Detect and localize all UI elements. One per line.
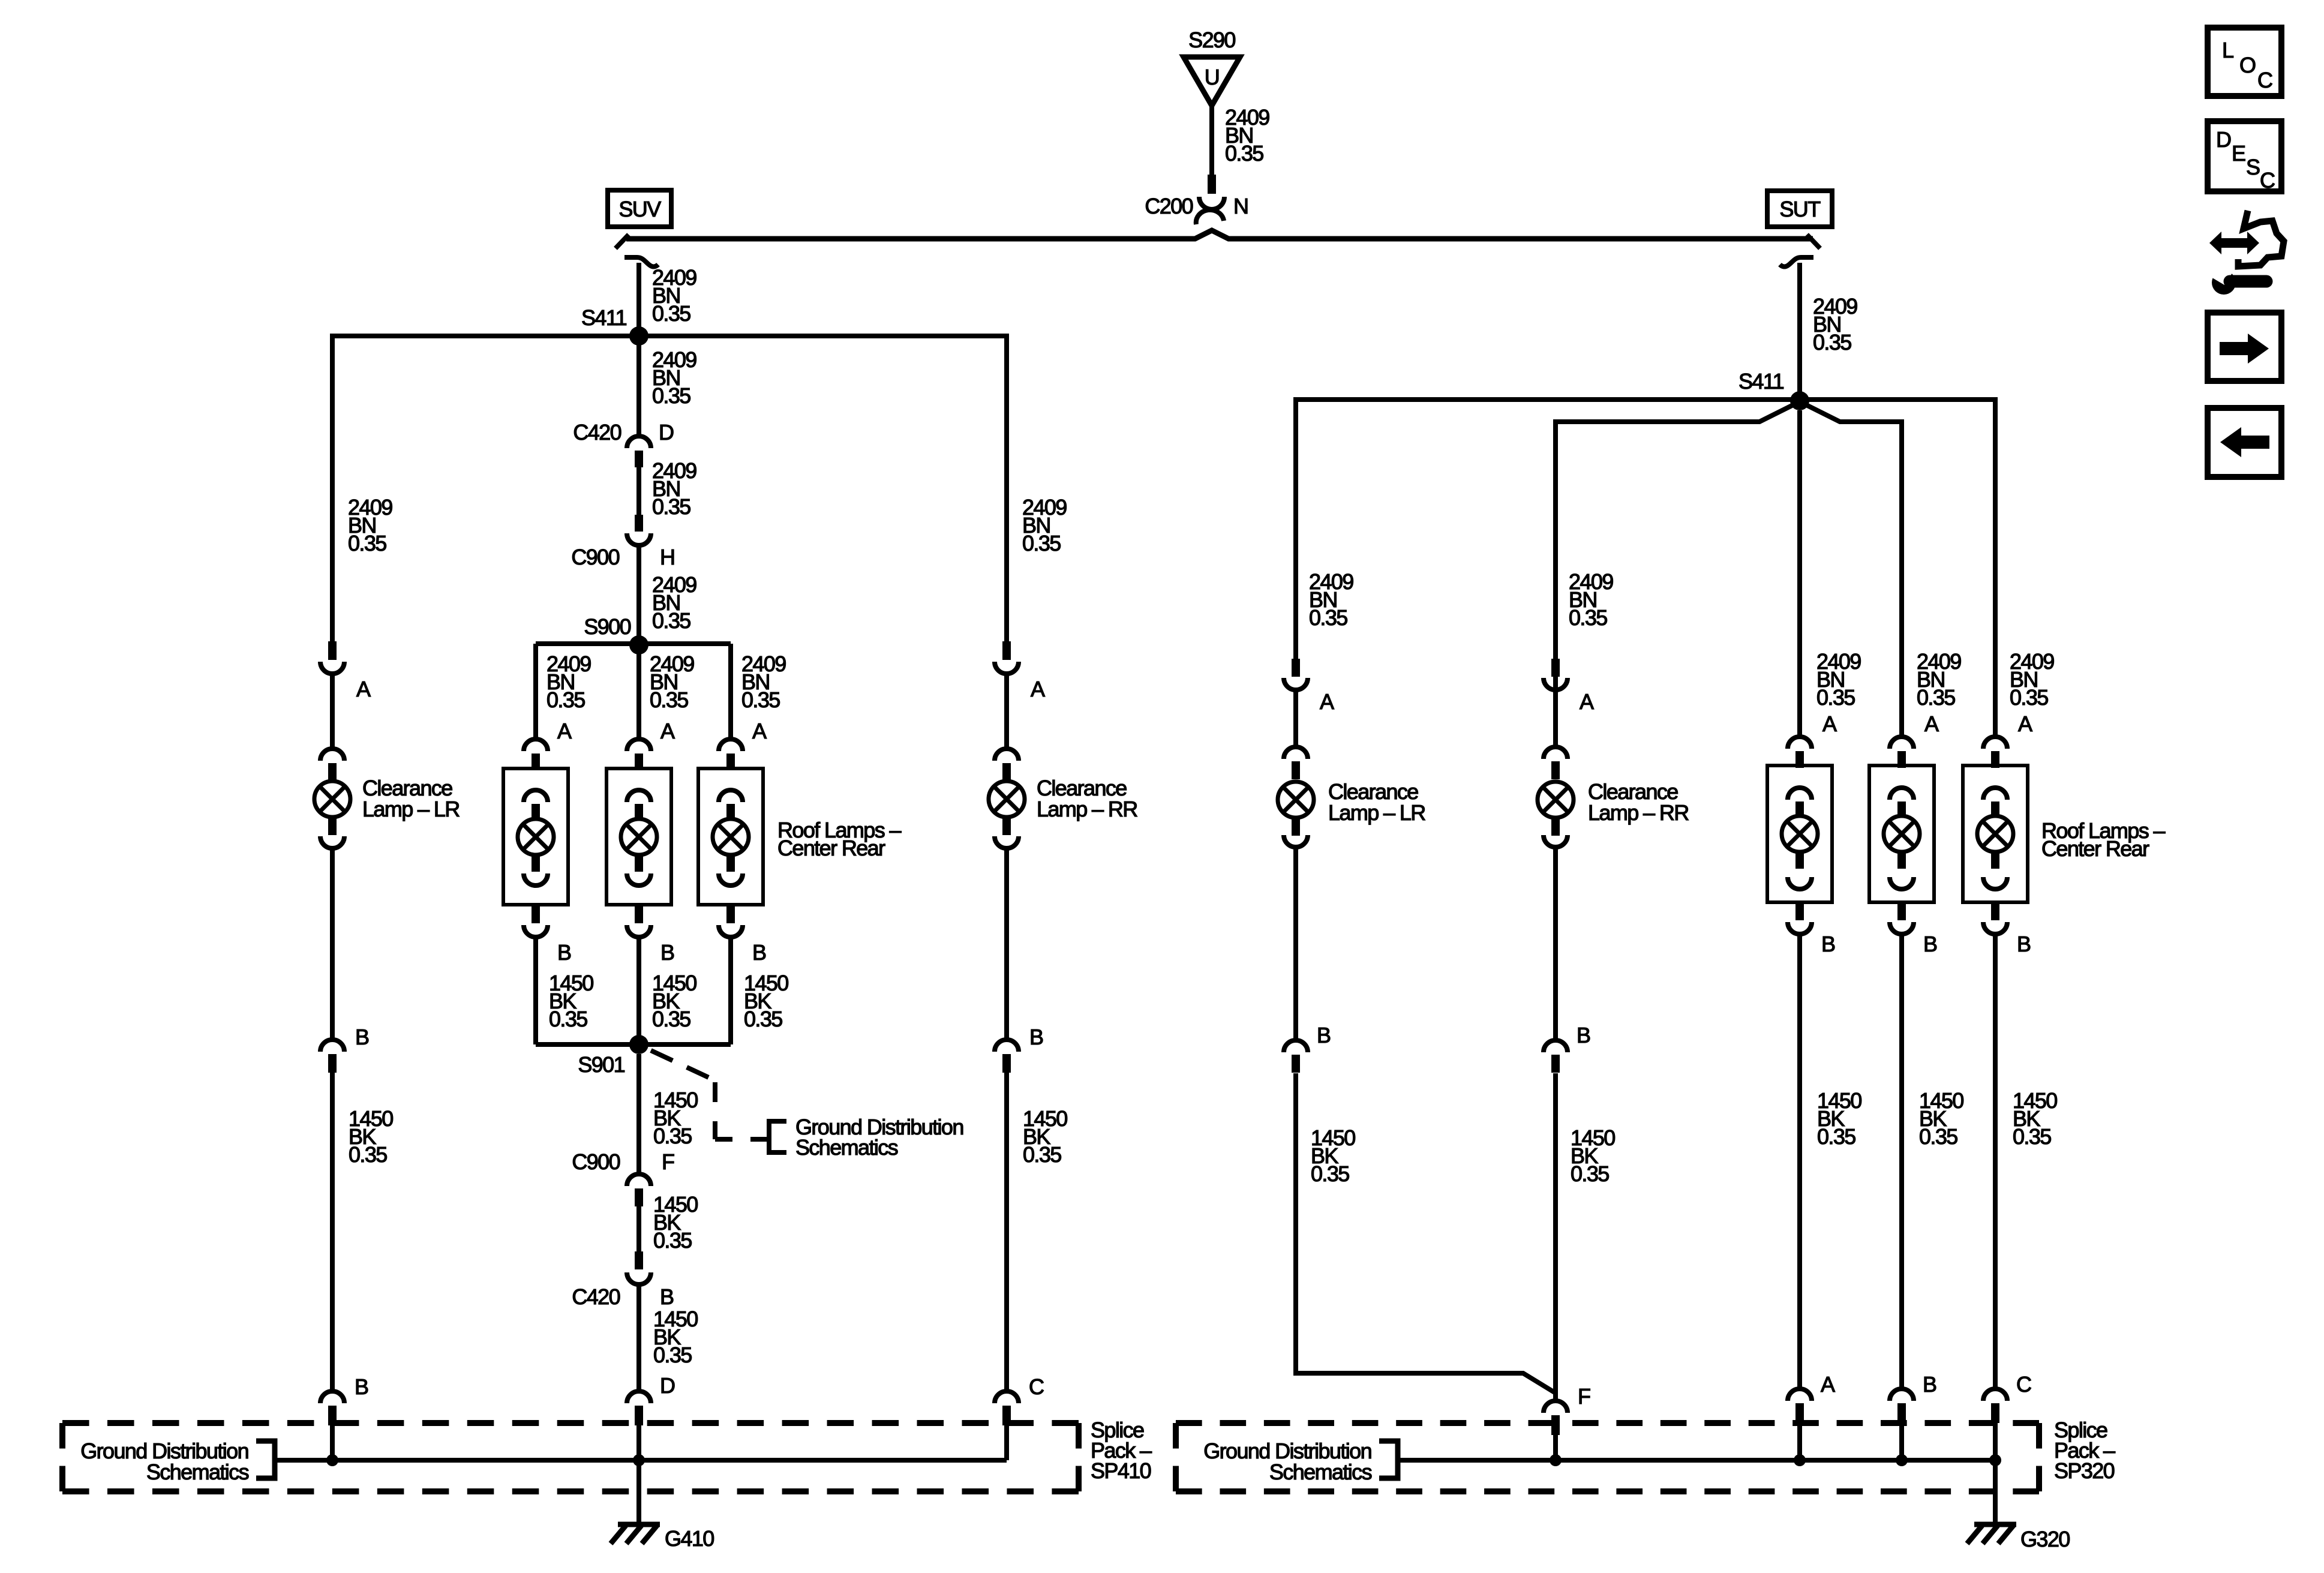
svg-text:A: A xyxy=(1320,689,1334,714)
roof lamp 2 housing (SUT) xyxy=(1869,766,1934,902)
ground G320 xyxy=(1967,1524,2070,1551)
svg-text:Lamp – RR: Lamp – RR xyxy=(1037,797,1137,821)
wire label 1450 BK 0.35 (roof lamp 3 SUV) xyxy=(744,971,788,1031)
svg-text:SUT: SUT xyxy=(1779,197,1821,221)
svg-text:S290: S290 xyxy=(1188,28,1235,52)
wire S411 to Clearance Lamp LR (SUT) xyxy=(1296,400,1800,659)
roof lamp 2 housing (SUV) xyxy=(606,769,671,905)
wire into splice pack SP320 at B xyxy=(1899,1423,1904,1460)
wire label 1450 BK 0.35 (roof lamp 2 SUV) xyxy=(652,971,696,1031)
DESC navigation box xyxy=(2208,121,2281,193)
connector pin A (roof lamp 1 SUT) xyxy=(1788,737,1812,768)
connector pin B (splice pack SP410) xyxy=(320,1391,344,1425)
svg-text:F: F xyxy=(1578,1384,1590,1409)
svg-text:F: F xyxy=(662,1149,674,1174)
pin C label (splice pack SP410) xyxy=(1029,1374,1044,1399)
svg-text:B: B xyxy=(557,940,571,965)
S901 branch bus xyxy=(536,1042,731,1047)
pin B label (roof lamp 3 SUT) xyxy=(2017,932,2031,956)
svg-text:Schematics: Schematics xyxy=(795,1135,898,1160)
connector C900 pin H (SUV top) xyxy=(571,515,674,569)
pin D label (splice pack SP410) xyxy=(660,1373,675,1398)
svg-text:C420: C420 xyxy=(572,1284,620,1309)
wire roof lamp 1 to splice pack SP320 xyxy=(1797,935,1802,1388)
svg-text:A: A xyxy=(1924,712,1939,736)
svg-text:0.35: 0.35 xyxy=(1225,141,1263,166)
wire label 1450 BK 0.35 (S901-C900) xyxy=(653,1088,698,1148)
connector pin A (roof lamp 1 SUV) xyxy=(524,739,548,770)
svg-text:U: U xyxy=(1205,65,1219,89)
wire S411 down to roof lamp 1 (SUT) xyxy=(1797,410,1802,738)
svg-text:B: B xyxy=(1821,932,1835,956)
wire into splice pack SP320 at C xyxy=(1993,1423,1998,1460)
svg-text:G320: G320 xyxy=(2020,1527,2070,1551)
wire to Clearance Lamp LR (SUV) xyxy=(330,675,335,748)
wire S411 to roof lamp 2 (SUT) xyxy=(1801,403,1902,738)
svg-text:S411: S411 xyxy=(581,305,627,330)
wire into splice pack SP410 at B xyxy=(330,1425,335,1460)
wire label 2409 BN 0.35 (S411-C420) xyxy=(652,347,696,408)
wire C420 to splice pack SP410 xyxy=(636,1286,641,1390)
splice node S901 xyxy=(629,1035,648,1054)
roof lamp 1 bulb (SUV) xyxy=(518,790,554,885)
wire label 1450 BK 0.35 (Clearance RR SUV) xyxy=(1023,1106,1067,1167)
roof lamp 3 housing (SUT) xyxy=(1963,766,2028,902)
svg-text:C: C xyxy=(2016,1372,2031,1397)
Clearance Lamp RR (SUT) xyxy=(1538,747,1574,847)
pin A label (roof lamp 2 SUV) xyxy=(660,719,675,743)
wire label 1450 BK 0.35 (C420-SP410) xyxy=(653,1307,698,1367)
svg-text:A: A xyxy=(356,677,371,701)
svg-text:Lamp – LR: Lamp – LR xyxy=(1328,800,1425,825)
splice node S411 (SUT) xyxy=(1790,391,1809,410)
svg-text:0.35: 0.35 xyxy=(547,688,585,712)
wire S901 to C900 pin F xyxy=(636,1054,641,1173)
svg-text:SP320: SP320 xyxy=(2054,1458,2115,1483)
svg-text:O: O xyxy=(2239,53,2256,77)
wire Clearance RR to splice pack (SUV) xyxy=(1004,1073,1009,1390)
wire S411 down to C420 (SUV) xyxy=(636,336,641,435)
Ground Distribution Schematics reference (S901) xyxy=(769,1115,963,1160)
connector pin F (splice pack SP320) xyxy=(1544,1401,1568,1435)
junction SP320 at B xyxy=(1896,1454,1908,1466)
svg-text:Schematics: Schematics xyxy=(146,1460,249,1484)
svg-text:A: A xyxy=(1821,1372,1835,1397)
wire into splice pack SP320 at F xyxy=(1553,1435,1558,1460)
wire 2409 BN from S290 to C200 xyxy=(1209,106,1214,176)
connector pin C (splice pack SP320) xyxy=(1983,1389,2007,1423)
connector pin B (roof lamp 3 SUV) xyxy=(719,906,743,937)
bus right end bracket tick xyxy=(1807,235,1820,248)
roof lamp 2 bulb (SUT) xyxy=(1884,788,1920,889)
Clearance Lamp RR (SUV) xyxy=(989,749,1025,848)
wire C900 to S900 xyxy=(636,547,641,645)
pin B label (roof lamp 2 SUT) xyxy=(1923,932,1937,956)
wire roof lamp 3 to S901 (SUV) xyxy=(728,938,733,1044)
svg-text:L: L xyxy=(2222,38,2233,62)
node S901 label xyxy=(578,1052,624,1077)
svg-text:Lamp – RR: Lamp – RR xyxy=(1588,800,1689,825)
wire into splice pack SP320 at A xyxy=(1797,1423,1802,1460)
pin B label (Clearance RR SUV) xyxy=(1029,1025,1043,1049)
wire roof lamp 1 to S901 (SUV) xyxy=(533,938,538,1044)
wire label 2409 BN 0.35 (bus-S411 SUT) xyxy=(1813,294,1857,355)
connector pin B (Clearance LR SUV) xyxy=(320,1040,344,1073)
wire Clearance LR joins RR ground lead (SUT) xyxy=(1296,1073,1556,1393)
svg-text:C: C xyxy=(2257,68,2272,92)
svg-text:C420: C420 xyxy=(573,420,621,445)
splice bus SP320 xyxy=(1398,1458,1995,1463)
svg-text:B: B xyxy=(355,1025,369,1049)
svg-text:D: D xyxy=(2216,127,2231,152)
forward arrow box xyxy=(2208,313,2281,381)
wire label 2409 BN 0.35 (C420-C900) xyxy=(652,458,696,519)
connector pin A (roof lamp 3 SUT) xyxy=(1983,737,2007,768)
connector C900 pin F (SUV bottom) xyxy=(572,1149,674,1206)
wire C900 to C420 (SUV bottom) xyxy=(636,1206,641,1251)
wire S411 to Clearance Lamp RR (SUV) xyxy=(639,336,1007,641)
wire label 1450 BK 0.35 (Clearance LR SUV) xyxy=(349,1106,393,1167)
svg-text:0.35: 0.35 xyxy=(2010,685,2048,710)
wire label 2409 BN 0.35 (roof lamp 2 SUT) xyxy=(1917,649,1961,710)
pin A label (roof lamp 3 SUT) xyxy=(2018,712,2032,736)
svg-text:0.35: 0.35 xyxy=(1023,1142,1061,1167)
Clearance Lamp LR label (SUV) xyxy=(362,776,460,821)
wire label 2409 BN 0.35 (C900-S900) xyxy=(652,572,696,633)
connector pin B (roof lamp 3 SUT) xyxy=(1983,903,2007,934)
svg-text:B: B xyxy=(660,940,674,965)
wire S411 to Clearance Lamp LR (SUV) xyxy=(332,336,639,641)
Clearance Lamp RR label (SUT) xyxy=(1588,779,1689,825)
wire label 2409 BN 0.35 (bus-S411) xyxy=(652,265,696,326)
wire S411 to roof lamp 3 (SUT) xyxy=(1800,400,1995,738)
connector C420 pin B (SUV bottom) xyxy=(572,1251,674,1309)
wire label 2409 BN 0.35 (Clearance LR SUT) xyxy=(1309,569,1353,630)
Splice Pack SP320 label xyxy=(2054,1418,2115,1483)
wire label 1450 BK 0.35 (C900-C420) xyxy=(653,1192,698,1253)
wire Clearance RR to pin B (SUV) xyxy=(1004,849,1009,1038)
repair icon wrench xyxy=(2211,265,2266,295)
svg-text:B: B xyxy=(355,1374,368,1399)
harness bus SUV/SUT with chevron at C200 xyxy=(626,230,1813,239)
svg-text:B: B xyxy=(1317,1023,1331,1047)
pin B label (splice pack SP320) xyxy=(1923,1372,1936,1397)
connector pin A (Clearance RR SUV) xyxy=(995,641,1019,674)
pin A label (Clearance RR SUV) xyxy=(1031,677,1045,701)
wire Clearance RR to pin B (SUT) xyxy=(1553,848,1558,1039)
svg-text:G410: G410 xyxy=(665,1526,714,1551)
Roof Lamps - Center Rear label (SUV) xyxy=(777,818,901,860)
ground wire SP320 to G320 xyxy=(1993,1460,1998,1524)
wire label 2409 BN 0.35 (roof lamp 3 SUV) xyxy=(741,652,786,712)
pin B label (roof lamp 1 SUV) xyxy=(557,940,571,965)
svg-text:0.35: 0.35 xyxy=(652,608,690,633)
svg-text:S: S xyxy=(2246,155,2260,179)
svg-text:C200: C200 xyxy=(1145,194,1193,218)
connector pin A (roof lamp 2 SUV) xyxy=(627,739,651,770)
svg-text:0.35: 0.35 xyxy=(349,1142,387,1167)
svg-text:N: N xyxy=(1233,194,1248,218)
SUV tag box xyxy=(608,190,671,227)
svg-text:SUV: SUV xyxy=(618,197,661,221)
connector pin A (Clearance RR SUT) xyxy=(1544,659,1568,690)
pin A label (splice pack SP320) xyxy=(1821,1372,1835,1397)
connector pin B (roof lamp 1 SUT) xyxy=(1788,903,1812,934)
roof lamp 3 housing (SUV) xyxy=(698,769,763,905)
wire roof lamp 2 to S901 (SUV) xyxy=(636,938,641,1044)
svg-text:B: B xyxy=(2017,932,2031,956)
svg-text:0.35: 0.35 xyxy=(1816,685,1855,710)
pin A label (roof lamp 3 SUV) xyxy=(752,719,767,743)
splice node S900 xyxy=(629,635,648,655)
svg-text:0.35: 0.35 xyxy=(652,1007,690,1031)
svg-text:0.35: 0.35 xyxy=(1919,1124,1957,1149)
wire label 1450 BK 0.35 (roof lamp 1 SUT) xyxy=(1817,1088,1861,1149)
svg-text:B: B xyxy=(1923,932,1937,956)
wire label 2409 BN 0.35 (roof lamp 2 SUV) xyxy=(650,652,694,712)
svg-text:Center Rear: Center Rear xyxy=(777,836,885,860)
junction SP320 at F xyxy=(1550,1454,1562,1466)
connector pin B (Clearance RR SUT) xyxy=(1544,1040,1568,1073)
roof lamp 1 housing (SUV) xyxy=(503,769,568,905)
svg-text:0.35: 0.35 xyxy=(348,531,386,556)
bus drop hook (SUT) xyxy=(1780,257,1813,267)
wire into splice pack SP410 at C xyxy=(1004,1425,1009,1460)
wire label 1450 BK 0.35 (roof lamp 1 SUV) xyxy=(549,971,593,1031)
svg-text:0.35: 0.35 xyxy=(1311,1161,1349,1186)
svg-text:B: B xyxy=(1577,1023,1590,1047)
svg-text:A: A xyxy=(1822,712,1837,736)
svg-text:0.35: 0.35 xyxy=(652,301,690,326)
LOC navigation box xyxy=(2208,28,2281,96)
wire label 2409 BN 0.35 (Clearance RR SUT) xyxy=(1569,569,1613,630)
connector pin A (splice pack SP320) xyxy=(1788,1389,1812,1423)
connector pin A (roof lamp 3 SUV) xyxy=(719,739,743,770)
connector pin C (splice pack SP410) xyxy=(995,1391,1019,1425)
wire C420 to C900 (SUV) xyxy=(636,467,641,516)
roof lamp 2 bulb (SUV) xyxy=(621,790,657,885)
Clearance Lamp LR (SUT) xyxy=(1278,747,1314,847)
svg-text:D: D xyxy=(659,420,674,445)
connector C200 pin N xyxy=(1145,175,1248,224)
wire label 1450 BK 0.35 (roof lamp 2 SUT) xyxy=(1919,1088,1963,1149)
roof lamp 1 bulb (SUT) xyxy=(1782,788,1818,889)
svg-text:0.35: 0.35 xyxy=(741,688,780,712)
svg-text:A: A xyxy=(660,719,675,743)
pin B label (roof lamp 3 SUV) xyxy=(752,940,766,965)
bus left end bracket tick xyxy=(615,235,629,248)
svg-text:Schematics: Schematics xyxy=(1269,1460,1372,1484)
connector pin B (roof lamp 1 SUV) xyxy=(524,906,548,937)
svg-text:A: A xyxy=(557,719,572,743)
svg-text:0.35: 0.35 xyxy=(1571,1161,1609,1186)
connector pin B (roof lamp 2 SUV) xyxy=(627,906,651,937)
wire label 2409 BN 0.35 (roof lamp 1 SUT) xyxy=(1816,649,1861,710)
svg-text:0.35: 0.35 xyxy=(652,494,690,519)
Clearance Lamp LR (SUV) xyxy=(314,749,350,848)
pin B label (Clearance LR SUT) xyxy=(1317,1023,1331,1047)
wire to Clearance Lamp RR (SUV) xyxy=(1004,675,1009,748)
wire label 2409 BN 0.35 (Clearance LR SUV) xyxy=(348,495,392,556)
pin A label (Clearance LR SUT) xyxy=(1320,689,1334,714)
splice pack SP410 box xyxy=(62,1423,1079,1491)
pin A label (roof lamp 1 SUV) xyxy=(557,719,572,743)
svg-text:B: B xyxy=(1923,1372,1936,1397)
svg-text:B: B xyxy=(1029,1025,1043,1049)
svg-text:A: A xyxy=(752,719,767,743)
SUT tag box xyxy=(1767,191,1832,227)
svg-text:D: D xyxy=(660,1373,675,1398)
svg-text:0.35: 0.35 xyxy=(1309,605,1347,630)
S900 branch bus to roof lamps (SUV) xyxy=(536,644,731,738)
pin C label (splice pack SP320) xyxy=(2016,1372,2031,1397)
svg-text:0.35: 0.35 xyxy=(653,1228,692,1253)
wire SP410 bus up to pin C xyxy=(1004,1425,1009,1460)
svg-text:SP410: SP410 xyxy=(1091,1458,1151,1483)
svg-text:0.35: 0.35 xyxy=(1817,1124,1855,1149)
connector pin B (Clearance RR SUV) xyxy=(995,1040,1019,1073)
wire label 2409 BN 0.35 (roof lamp 3 SUT) xyxy=(2010,649,2054,710)
pin B label (roof lamp 1 SUT) xyxy=(1821,932,1835,956)
ground wire SP410 to G410 xyxy=(636,1460,641,1524)
svg-text:B: B xyxy=(752,940,766,965)
pin F label (splice pack SP320) xyxy=(1578,1384,1590,1409)
svg-text:C: C xyxy=(2260,168,2275,193)
connector pin B (roof lamp 2 SUT) xyxy=(1890,903,1914,934)
wire S411 to Clearance Lamp RR (SUT) xyxy=(1556,403,1798,746)
wire bus to S411 (SUV) xyxy=(636,263,641,336)
svg-text:0.35: 0.35 xyxy=(653,1124,692,1148)
svg-text:A: A xyxy=(2018,712,2032,736)
Roof Lamps - Center Rear label (SUT) xyxy=(2041,818,2165,861)
wire to Clearance Lamp LR (SUT) xyxy=(1293,691,1298,746)
pin A label (Clearance LR SUV) xyxy=(356,677,371,701)
junction SP410 at D xyxy=(633,1454,645,1466)
wire label 2409 BN 0.35 (roof lamp 1 SUV) xyxy=(547,652,591,712)
bus drop hook (SUV) xyxy=(624,257,658,267)
svg-text:Center Rear: Center Rear xyxy=(2041,836,2149,861)
roof lamp 3 bulb (SUT) xyxy=(1977,788,2013,889)
roof lamp 1 housing (SUT) xyxy=(1767,766,1832,902)
svg-text:S411: S411 xyxy=(1739,369,1784,394)
svg-text:S900: S900 xyxy=(584,614,630,639)
wire Clearance LR to pin B (SUV) xyxy=(330,849,335,1038)
wire roof lamp 3 to splice pack SP320 xyxy=(1993,935,1998,1388)
svg-text:0.35: 0.35 xyxy=(653,1343,692,1367)
pin B label (Clearance LR SUV) xyxy=(355,1025,369,1049)
svg-text:0.35: 0.35 xyxy=(1569,605,1607,630)
dashed reference link S901 to Ground Distribution Schematics xyxy=(651,1050,768,1139)
svg-text:C: C xyxy=(1029,1374,1044,1399)
pin A label (roof lamp 2 SUT) xyxy=(1924,712,1939,736)
splice bus SP410 xyxy=(275,1458,1007,1463)
Clearance Lamp RR label (SUV) xyxy=(1037,776,1137,821)
svg-text:A: A xyxy=(1580,689,1594,714)
wire label 2409 BN 0.35 (Clearance RR SUV) xyxy=(1022,495,1067,556)
svg-text:E: E xyxy=(2232,141,2245,166)
pin A label (roof lamp 1 SUT) xyxy=(1822,712,1837,736)
svg-text:0.35: 0.35 xyxy=(1022,531,1061,556)
wire roof lamp 2 to splice pack SP320 xyxy=(1899,935,1904,1388)
wire into splice pack SP410 at D xyxy=(636,1425,641,1460)
svg-text:A: A xyxy=(1031,677,1045,701)
splice node S411 (SUV) xyxy=(629,326,648,346)
splice pack SP320 box xyxy=(1176,1423,2039,1491)
connector pin B (splice pack SP320) xyxy=(1890,1389,1914,1423)
wire Clearance RR to pin F (SUT) xyxy=(1553,1073,1558,1400)
connector pin A (Clearance LR SUV) xyxy=(320,641,344,674)
wire bus to S411 (SUT) xyxy=(1797,263,1802,401)
junction SP320 at A xyxy=(1794,1454,1806,1466)
svg-text:C900: C900 xyxy=(571,545,619,569)
ground G410 xyxy=(611,1524,714,1551)
wire label 1450 BK 0.35 (roof lamp 3 SUT) xyxy=(2013,1088,2057,1149)
svg-text:0.35: 0.35 xyxy=(1917,685,1955,710)
connector C420 pin D (SUV top) xyxy=(573,420,674,467)
wire Clearance LR to pin B (SUT) xyxy=(1293,848,1298,1039)
pin B label (splice pack SP410) xyxy=(355,1374,368,1399)
back arrow box xyxy=(2208,408,2281,477)
splice S290 xyxy=(1184,28,1240,106)
pin A label (Clearance RR SUT) xyxy=(1580,689,1594,714)
connector pin D (splice pack SP410) xyxy=(627,1391,651,1425)
svg-text:S901: S901 xyxy=(578,1052,624,1077)
wire label 1450 BK 0.35 (Clearance RR SUT) xyxy=(1571,1125,1615,1186)
svg-text:0.35: 0.35 xyxy=(744,1007,782,1031)
svg-text:B: B xyxy=(660,1284,674,1309)
svg-text:0.35: 0.35 xyxy=(652,383,690,408)
wire label 2409 BN 0.35 (S290-C200) xyxy=(1225,105,1269,166)
connector pin A (roof lamp 2 SUT) xyxy=(1890,737,1914,768)
connector pin B (Clearance LR SUT) xyxy=(1284,1040,1308,1073)
Ground Distribution Schematics label (SP320) xyxy=(1203,1439,1398,1484)
wire to Clearance Lamp RR (SUT) xyxy=(1553,691,1558,746)
svg-text:Lamp – LR: Lamp – LR xyxy=(362,797,460,821)
node S900 label xyxy=(584,614,630,639)
svg-text:0.35: 0.35 xyxy=(650,688,688,712)
connector pin A (Clearance LR SUT) xyxy=(1284,659,1308,690)
Clearance Lamp LR label (SUT) xyxy=(1328,779,1425,825)
junction SP410 at B xyxy=(326,1454,338,1466)
node S411 label (SUT) xyxy=(1739,369,1784,394)
wire label 1450 BK 0.35 (Clearance LR SUT) xyxy=(1311,1125,1355,1186)
repair icon bent wire xyxy=(2238,211,2284,266)
svg-text:H: H xyxy=(660,545,674,569)
svg-text:0.35: 0.35 xyxy=(2013,1124,2051,1149)
repair icon double arrow xyxy=(2209,232,2259,254)
Splice Pack SP410 label xyxy=(1091,1418,1152,1483)
pin B label (roof lamp 2 SUV) xyxy=(660,940,674,965)
svg-text:0.35: 0.35 xyxy=(1813,330,1851,355)
node S411 label (SUV) xyxy=(581,305,627,330)
svg-text:C900: C900 xyxy=(572,1149,620,1174)
Ground Distribution Schematics label (SP410) xyxy=(80,1439,275,1484)
roof lamp 3 bulb (SUV) xyxy=(713,790,749,885)
pin B label (Clearance RR SUT) xyxy=(1577,1023,1590,1047)
svg-text:0.35: 0.35 xyxy=(549,1007,587,1031)
junction SP320 at C xyxy=(1989,1454,2001,1466)
wire Clearance LR to splice pack (SUV) xyxy=(330,1073,335,1390)
